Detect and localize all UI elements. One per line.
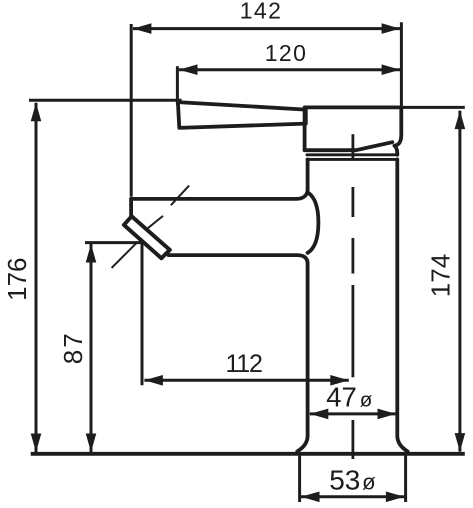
- svg-text:120: 120: [265, 40, 308, 66]
- svg-text:87: 87: [58, 331, 88, 364]
- svg-text:142: 142: [240, 0, 283, 24]
- svg-text:53: 53: [329, 465, 360, 496]
- svg-text:ø: ø: [360, 388, 373, 411]
- svg-text:47: 47: [326, 382, 357, 413]
- svg-text:ø: ø: [362, 470, 375, 495]
- svg-text:174: 174: [426, 254, 456, 297]
- svg-text:112: 112: [225, 350, 262, 378]
- svg-text:176: 176: [2, 258, 32, 301]
